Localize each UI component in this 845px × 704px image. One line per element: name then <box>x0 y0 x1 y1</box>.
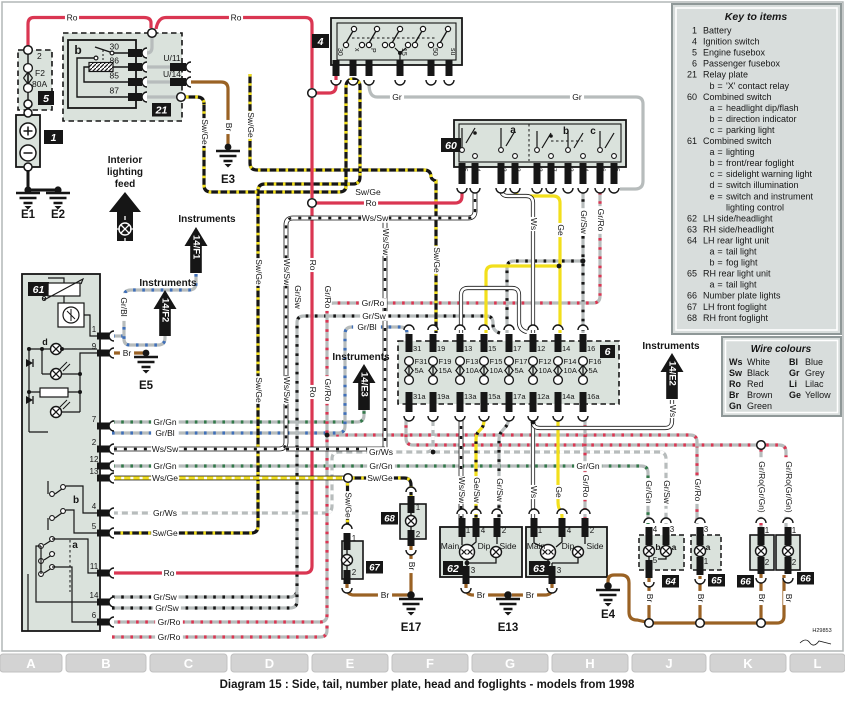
svg-text:E3: E3 <box>221 174 235 186</box>
svg-text:Key to items: Key to items <box>725 11 788 23</box>
svg-text:6: 6 <box>92 611 97 620</box>
svg-text:10A: 10A <box>564 366 577 375</box>
svg-text:Ro: Ro <box>231 13 242 23</box>
svg-text:Ro: Ro <box>308 387 318 398</box>
svg-text:=: = <box>717 180 722 190</box>
svg-text:RH side/headlight: RH side/headlight <box>703 224 775 234</box>
svg-text:x: x <box>353 48 360 52</box>
svg-text:5A: 5A <box>415 366 424 375</box>
svg-text:=: = <box>717 191 722 201</box>
svg-text:e: e <box>709 191 714 201</box>
svg-text:2: 2 <box>792 558 797 567</box>
svg-text:Br: Br <box>729 390 739 400</box>
svg-text:b: b <box>709 158 714 168</box>
svg-text:Br: Br <box>757 594 767 603</box>
svg-text:Interior: Interior <box>108 155 143 166</box>
svg-text:Br: Br <box>645 594 655 603</box>
svg-text:B: B <box>101 656 110 671</box>
svg-text:Gr/Gn: Gr/Gn <box>644 480 654 503</box>
svg-text:Wire colours: Wire colours <box>751 344 812 355</box>
svg-text:switch and instrument: switch and instrument <box>726 191 814 201</box>
svg-text:Ws: Ws <box>529 218 539 230</box>
svg-text:66: 66 <box>800 574 811 585</box>
svg-text:F2: F2 <box>35 68 45 78</box>
svg-text:Yellow: Yellow <box>805 390 831 400</box>
svg-text:Number plate lights: Number plate lights <box>703 291 781 301</box>
svg-text:F13: F13 <box>466 357 479 366</box>
svg-text:lighting control: lighting control <box>726 202 784 212</box>
svg-text:60: 60 <box>445 140 457 152</box>
svg-text:E: E <box>346 656 355 671</box>
svg-text:Gr: Gr <box>392 92 402 102</box>
svg-text:Passenger fusebox: Passenger fusebox <box>703 59 781 69</box>
svg-text:c: c <box>710 125 715 135</box>
svg-text:Gr/Ro: Gr/Ro <box>581 475 591 498</box>
svg-text:Ro: Ro <box>308 260 318 271</box>
svg-text:68: 68 <box>687 313 697 323</box>
svg-text:RH rear light unit: RH rear light unit <box>703 269 771 279</box>
svg-text:Gr/Ws: Gr/Ws <box>369 447 393 457</box>
svg-text:H29853: H29853 <box>812 628 831 634</box>
svg-text:a: a <box>672 542 677 552</box>
svg-text:64: 64 <box>687 235 697 245</box>
svg-text:63: 63 <box>687 224 697 234</box>
svg-text:16: 16 <box>587 344 595 353</box>
svg-text:Sw/Ge: Sw/Ge <box>432 247 442 273</box>
svg-text:Main: Main <box>441 541 460 551</box>
svg-text:11: 11 <box>90 562 99 571</box>
svg-text:6: 6 <box>692 59 697 69</box>
svg-text:67: 67 <box>687 302 697 312</box>
svg-text:LH front foglight: LH front foglight <box>703 302 767 312</box>
svg-text:50: 50 <box>431 48 438 56</box>
svg-text:67: 67 <box>369 563 380 574</box>
svg-text:Gr/Sw: Gr/Sw <box>579 210 589 234</box>
svg-text:2: 2 <box>765 558 770 567</box>
svg-text:Ro: Ro <box>366 198 377 208</box>
svg-text:front/rear foglight: front/rear foglight <box>726 158 795 168</box>
svg-text:H: H <box>585 656 594 671</box>
svg-text:Gr/Sw: Gr/Sw <box>153 592 177 602</box>
svg-text:19a: 19a <box>437 392 450 401</box>
svg-text:Br: Br <box>123 348 132 358</box>
svg-text:F15: F15 <box>490 357 503 366</box>
svg-text:E4: E4 <box>601 609 616 621</box>
svg-text:65: 65 <box>711 576 722 587</box>
svg-text:1: 1 <box>692 26 697 36</box>
svg-text:Engine fusebox: Engine fusebox <box>703 48 766 58</box>
svg-text:Br: Br <box>381 590 390 600</box>
svg-text:1: 1 <box>416 503 421 512</box>
svg-text:J: J <box>665 656 672 671</box>
svg-text:E1: E1 <box>21 209 36 221</box>
svg-text:1: 1 <box>538 526 543 535</box>
svg-text:Grey: Grey <box>805 368 825 378</box>
svg-text:65: 65 <box>687 269 697 279</box>
svg-text:Bl: Bl <box>789 357 798 367</box>
svg-text:b: b <box>73 495 79 506</box>
svg-text:Gr/Gn: Gr/Gn <box>576 461 599 471</box>
svg-text:Instruments: Instruments <box>139 278 197 289</box>
svg-text:Ro: Ro <box>164 568 175 578</box>
svg-text:Br: Br <box>784 594 794 603</box>
svg-text:1: 1 <box>792 526 797 535</box>
svg-text:14: 14 <box>562 344 570 353</box>
svg-text:F12: F12 <box>539 357 552 366</box>
svg-text:Ge/Sw: Ge/Sw <box>472 477 482 503</box>
svg-text:Ws: Ws <box>729 357 743 367</box>
svg-text:Ws/Sw: Ws/Sw <box>362 213 389 223</box>
svg-text:b: b <box>709 114 714 124</box>
svg-text:5: 5 <box>653 556 658 565</box>
svg-text:68: 68 <box>384 514 395 525</box>
svg-text:10A: 10A <box>466 366 479 375</box>
svg-text:F31: F31 <box>415 357 428 366</box>
svg-text:LH rear light unit: LH rear light unit <box>703 235 770 245</box>
svg-text:9: 9 <box>92 342 97 351</box>
svg-text:Gr/Ro: Gr/Ro <box>362 298 385 308</box>
svg-text:F: F <box>426 656 434 671</box>
svg-text:6: 6 <box>599 168 606 172</box>
svg-text:31: 31 <box>413 344 421 353</box>
svg-text:Gr/Sw: Gr/Sw <box>293 285 303 309</box>
svg-text:12: 12 <box>90 455 99 464</box>
svg-text:=: = <box>717 81 722 91</box>
svg-text:fog light: fog light <box>726 258 758 268</box>
svg-text:Sw/Ge: Sw/Ge <box>200 119 210 145</box>
svg-text:4: 4 <box>582 168 589 172</box>
svg-text:c: c <box>710 169 715 179</box>
svg-text:1: 1 <box>466 526 471 535</box>
svg-text:1: 1 <box>51 132 57 144</box>
svg-text:14/E2: 14/E2 <box>667 361 678 386</box>
svg-text:5: 5 <box>92 522 97 531</box>
svg-text:b: b <box>709 81 714 91</box>
svg-text:e: e <box>41 293 46 303</box>
svg-text:a: a <box>72 540 78 551</box>
svg-text:su: su <box>449 48 456 56</box>
svg-text:10A: 10A <box>539 366 552 375</box>
svg-text:86: 86 <box>110 56 120 66</box>
svg-text:5: 5 <box>43 93 49 105</box>
svg-text:3: 3 <box>567 168 574 172</box>
svg-text:13: 13 <box>90 467 99 476</box>
svg-text:headlight dip/flash: headlight dip/flash <box>726 103 799 113</box>
svg-text:=: = <box>717 103 722 113</box>
svg-text:7: 7 <box>92 415 97 424</box>
svg-text:1: 1 <box>352 534 357 543</box>
svg-text:lighting: lighting <box>726 147 755 157</box>
svg-text:Red: Red <box>747 379 764 389</box>
svg-text:85: 85 <box>110 71 120 81</box>
svg-text:62: 62 <box>687 213 697 223</box>
svg-text:Br: Br <box>526 590 535 600</box>
svg-text:Br: Br <box>224 123 234 132</box>
svg-text:Dip: Dip <box>478 541 491 551</box>
svg-text:Gr: Gr <box>572 92 582 102</box>
svg-text:Gr/Sw: Gr/Sw <box>362 311 386 321</box>
svg-text:direction indicator: direction indicator <box>726 114 797 124</box>
svg-text:Instruments: Instruments <box>178 214 236 225</box>
svg-text:Gr/Bl: Gr/Bl <box>155 428 174 438</box>
svg-text:U/11: U/11 <box>163 53 181 63</box>
svg-text:b: b <box>74 43 81 57</box>
svg-text:Sw: Sw <box>729 368 743 378</box>
svg-text:12a: 12a <box>537 392 550 401</box>
svg-text:Combined switch: Combined switch <box>703 92 772 102</box>
svg-text:14/F1: 14/F1 <box>191 235 202 260</box>
svg-text:feed: feed <box>115 179 136 190</box>
svg-text:b: b <box>655 542 660 552</box>
svg-text:Gr/Sw: Gr/Sw <box>155 603 179 613</box>
svg-text:4: 4 <box>474 168 481 172</box>
svg-text:3: 3 <box>670 525 675 534</box>
svg-text:Gr/Ro: Gr/Ro <box>158 632 181 642</box>
svg-text:2: 2 <box>590 526 595 535</box>
svg-text:Side: Side <box>586 541 603 551</box>
svg-text:Sw/Ge: Sw/Ge <box>246 112 256 138</box>
svg-text:13a: 13a <box>464 392 477 401</box>
svg-text:Ws/Sw: Ws/Sw <box>152 444 179 454</box>
svg-text:1: 1 <box>92 325 97 334</box>
svg-text:15A: 15A <box>439 366 452 375</box>
svg-text:63: 63 <box>533 563 545 575</box>
svg-text:1: 1 <box>765 526 770 535</box>
svg-text:10A: 10A <box>490 366 503 375</box>
svg-text:6: 6 <box>605 346 611 358</box>
svg-text:d: d <box>709 180 714 190</box>
svg-text:Li: Li <box>789 379 797 389</box>
svg-text:Ge: Ge <box>789 390 801 400</box>
svg-text:=: = <box>717 258 722 268</box>
svg-text:F16: F16 <box>589 357 602 366</box>
svg-text:a: a <box>706 542 711 552</box>
svg-text:13: 13 <box>464 344 472 353</box>
svg-text:a: a <box>709 280 714 290</box>
svg-text:=: = <box>717 169 722 179</box>
svg-text:Combined switch: Combined switch <box>703 136 772 146</box>
svg-text:Br: Br <box>696 594 706 603</box>
svg-text:Battery: Battery <box>703 26 732 36</box>
svg-text:4: 4 <box>653 525 658 534</box>
svg-text:Br: Br <box>477 590 486 600</box>
svg-text:4: 4 <box>317 36 324 48</box>
svg-text:=: = <box>717 247 722 257</box>
svg-text:87: 87 <box>110 86 120 96</box>
svg-text:Gr/Gn: Gr/Gn <box>369 461 392 471</box>
svg-text:4: 4 <box>92 502 97 511</box>
svg-text:19: 19 <box>437 344 445 353</box>
svg-text:LH side/headlight: LH side/headlight <box>703 213 773 223</box>
svg-text:Ws: Ws <box>668 405 678 417</box>
svg-text:2: 2 <box>92 438 97 447</box>
svg-text:Ws/Sw: Ws/Sw <box>457 477 467 504</box>
svg-text:16a: 16a <box>587 392 600 401</box>
svg-text:c: c <box>590 126 596 137</box>
svg-text:Ro: Ro <box>729 379 741 389</box>
svg-text:5: 5 <box>461 168 468 172</box>
svg-text:Ro: Ro <box>67 13 78 23</box>
svg-text:4: 4 <box>481 526 486 535</box>
svg-text:Ignition switch: Ignition switch <box>703 37 760 47</box>
svg-text:a: a <box>709 147 714 157</box>
svg-text:lighting: lighting <box>107 167 143 178</box>
svg-text:5: 5 <box>692 48 697 58</box>
svg-text:Gr/Ro(Gr/Gn): Gr/Ro(Gr/Gn) <box>784 461 794 513</box>
svg-text:Sw/Ge: Sw/Ge <box>254 259 264 285</box>
svg-text:31a: 31a <box>413 392 426 401</box>
svg-text:Gr/Ro: Gr/Ro <box>323 286 333 309</box>
svg-text:'X' contact relay: 'X' contact relay <box>726 81 789 91</box>
svg-text:L: L <box>814 656 822 671</box>
svg-text:14/F2: 14/F2 <box>160 298 171 322</box>
svg-text:Ge: Ge <box>554 486 564 498</box>
svg-text:U/14: U/14 <box>163 69 181 79</box>
svg-text:15: 15 <box>400 48 407 56</box>
svg-text:14: 14 <box>90 591 99 600</box>
svg-text:Ge: Ge <box>556 224 566 236</box>
svg-text:C: C <box>184 656 194 671</box>
svg-text:21: 21 <box>155 105 168 117</box>
svg-text:Gn: Gn <box>729 401 742 411</box>
svg-text:66: 66 <box>687 291 697 301</box>
svg-text:2: 2 <box>416 530 421 539</box>
svg-text:tail light: tail light <box>726 280 757 290</box>
svg-text:F14: F14 <box>564 357 577 366</box>
svg-text:14a: 14a <box>562 392 575 401</box>
svg-text:64: 64 <box>665 577 676 588</box>
svg-text:Side: Side <box>499 541 516 551</box>
svg-text:3: 3 <box>514 168 521 172</box>
svg-text:E2: E2 <box>51 209 65 221</box>
svg-text:=: = <box>717 125 722 135</box>
svg-text:Gr/Gn: Gr/Gn <box>153 417 176 427</box>
svg-text:=: = <box>717 147 722 157</box>
svg-text:Gr/Ro(Gr/Gn): Gr/Ro(Gr/Gn) <box>757 461 767 513</box>
svg-text:P: P <box>369 48 376 53</box>
svg-text:parking light: parking light <box>726 125 775 135</box>
svg-text:F17: F17 <box>515 357 528 366</box>
svg-text:Diagram 15 : Side, tail, numbe: Diagram 15 : Side, tail, number plate, h… <box>220 679 635 691</box>
svg-text:17a: 17a <box>513 392 526 401</box>
svg-text:Sw/Ge: Sw/Ge <box>254 377 264 403</box>
svg-text:=: = <box>717 280 722 290</box>
svg-text:Gr/Ro: Gr/Ro <box>693 479 703 502</box>
svg-text:Black: Black <box>747 368 770 378</box>
svg-text:2: 2 <box>502 526 507 535</box>
svg-text:Blue: Blue <box>805 357 823 367</box>
svg-text:A: A <box>26 656 36 671</box>
svg-text:Gr/Ws: Gr/Ws <box>153 508 177 518</box>
svg-text:Gr: Gr <box>789 368 800 378</box>
svg-text:Gr/Ro: Gr/Ro <box>323 379 333 402</box>
svg-text:15a: 15a <box>488 392 501 401</box>
svg-text:Ws/Sw: Ws/Sw <box>381 229 391 256</box>
svg-text:a: a <box>709 103 714 113</box>
svg-text:Green: Green <box>747 401 772 411</box>
svg-text:d: d <box>42 337 48 347</box>
svg-text:a: a <box>709 247 714 257</box>
svg-text:Lilac: Lilac <box>805 379 824 389</box>
svg-text:7: 7 <box>550 168 557 172</box>
svg-text:Gr/Bl: Gr/Bl <box>357 322 376 332</box>
svg-text:b: b <box>709 258 714 268</box>
svg-text:2: 2 <box>536 168 543 172</box>
svg-text:Sw/Ge: Sw/Ge <box>355 187 381 197</box>
svg-text:30: 30 <box>336 48 343 56</box>
svg-text:E13: E13 <box>498 622 518 634</box>
svg-text:White: White <box>747 357 770 367</box>
svg-text:Gr/Gn: Gr/Gn <box>153 461 176 471</box>
svg-text:5A: 5A <box>589 366 598 375</box>
svg-text:2: 2 <box>352 568 357 577</box>
svg-text:RH front foglight: RH front foglight <box>703 313 769 323</box>
svg-text:Main: Main <box>527 541 546 551</box>
svg-text:30: 30 <box>110 42 120 52</box>
svg-text:Ws: Ws <box>529 486 539 498</box>
svg-text:Br: Br <box>407 562 417 571</box>
svg-text:E5: E5 <box>139 380 154 392</box>
svg-text:61: 61 <box>687 136 697 146</box>
svg-text:Dip: Dip <box>562 541 575 551</box>
svg-text:5: 5 <box>613 168 620 172</box>
svg-text:Gr/Bl: Gr/Bl <box>119 297 129 316</box>
svg-text:80A: 80A <box>32 79 47 89</box>
svg-text:Ws/Ge: Ws/Ge <box>152 473 178 483</box>
svg-text:17: 17 <box>513 344 521 353</box>
svg-text:66: 66 <box>740 577 751 588</box>
svg-text:sidelight warning light: sidelight warning light <box>726 169 813 179</box>
svg-text:3: 3 <box>704 525 709 534</box>
svg-text:Gr/Sw: Gr/Sw <box>662 480 672 504</box>
svg-text:Gr/Ro: Gr/Ro <box>596 209 606 232</box>
svg-text:3: 3 <box>557 566 562 575</box>
svg-text:K: K <box>743 656 753 671</box>
svg-text:Relay plate: Relay plate <box>703 70 748 80</box>
svg-text:=: = <box>717 158 722 168</box>
svg-text:1: 1 <box>704 557 709 566</box>
svg-text:4: 4 <box>567 526 572 535</box>
svg-text:Ws/Sw: Ws/Sw <box>282 377 292 404</box>
svg-text:Instruments: Instruments <box>332 352 390 363</box>
svg-text:E17: E17 <box>401 622 421 634</box>
svg-text:switch illumination: switch illumination <box>726 180 799 190</box>
svg-text:15: 15 <box>488 344 496 353</box>
svg-text:D: D <box>265 656 274 671</box>
svg-text:4: 4 <box>692 37 697 47</box>
svg-text:Sw/Ge: Sw/Ge <box>344 492 354 518</box>
svg-text:F19: F19 <box>439 357 452 366</box>
svg-text:60: 60 <box>687 92 697 102</box>
svg-text:Sw/Ge: Sw/Ge <box>152 528 178 538</box>
svg-text:62: 62 <box>447 563 459 575</box>
svg-text:Sw/Ge: Sw/Ge <box>367 473 393 483</box>
svg-text:Gr/Sw: Gr/Sw <box>495 478 505 502</box>
svg-text:2: 2 <box>37 51 42 61</box>
svg-text:Ws/Sw: Ws/Sw <box>282 259 292 286</box>
svg-text:tail light: tail light <box>726 247 757 257</box>
svg-text:14/E3: 14/E3 <box>359 372 370 397</box>
svg-text:G: G <box>505 656 515 671</box>
svg-text:Brown: Brown <box>747 390 773 400</box>
svg-text:5A: 5A <box>515 366 524 375</box>
svg-text:12: 12 <box>537 344 545 353</box>
svg-text:3: 3 <box>471 566 476 575</box>
svg-text:2: 2 <box>500 168 507 172</box>
svg-text:=: = <box>717 114 722 124</box>
svg-text:Gr/Ro: Gr/Ro <box>158 617 181 627</box>
svg-text:Instruments: Instruments <box>642 341 700 352</box>
